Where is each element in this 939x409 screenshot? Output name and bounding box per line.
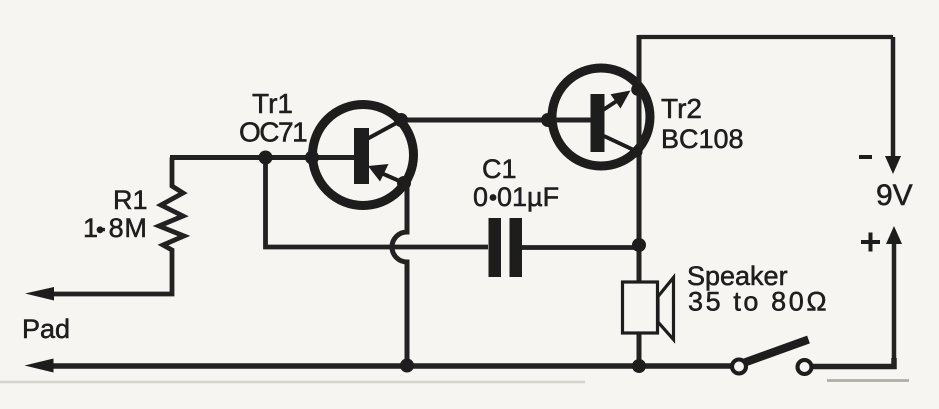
svg-text:C1: C1 bbox=[482, 154, 517, 184]
svg-text:Pad: Pad bbox=[22, 314, 70, 344]
svg-text:Tr2: Tr2 bbox=[661, 93, 702, 124]
wire bottom rail right segment bbox=[813, 358, 894, 367]
scan artifact line bottom left bbox=[0, 381, 585, 384]
battery plus sign bbox=[861, 233, 880, 252]
node Tr1 collector bbox=[394, 113, 408, 127]
wire top rail bbox=[639, 35, 893, 39]
svg-text:BC108: BC108 bbox=[661, 124, 744, 154]
svg-text:0·01µF: 0·01µF bbox=[473, 182, 559, 212]
svg-text:1·8M: 1·8M bbox=[83, 213, 148, 243]
transistor Tr1 internals (PNP) bbox=[354, 128, 369, 184]
battery positive lead bbox=[892, 243, 897, 364]
wire C1 to collector junction bbox=[522, 245, 639, 250]
svg-text:OC71: OC71 bbox=[239, 117, 307, 148]
scan artifact line bottom right bbox=[827, 379, 909, 382]
wire base rail Tr1 bbox=[170, 155, 356, 160]
svg-text:R1: R1 bbox=[113, 185, 148, 215]
wire Tr1 collector to Tr2 base bbox=[401, 118, 592, 123]
speaker LS1 bbox=[658, 278, 674, 340]
switch S1 bbox=[742, 340, 809, 364]
transistor Tr2 body circle bbox=[552, 68, 650, 166]
wire speaker bottom lead bbox=[637, 333, 642, 366]
node Tr1 emitter bbox=[397, 176, 411, 190]
node C1-speaker junction bbox=[632, 238, 646, 252]
node Tr2 base bbox=[541, 113, 555, 127]
svg-text:Tr1: Tr1 bbox=[252, 88, 293, 119]
node speaker-ground junction bbox=[632, 359, 646, 373]
wire right vertical from Tr2 up to top rail and down through Tr2 to speaker bbox=[637, 35, 642, 282]
svg-text:9V: 9V bbox=[876, 179, 913, 212]
resistor R1 bbox=[52, 158, 184, 295]
transistor Tr1 body circle bbox=[313, 105, 414, 206]
wire bottom rail left segment bbox=[50, 363, 731, 369]
battery negative lead bbox=[891, 37, 896, 158]
node base junction bbox=[259, 151, 273, 165]
battery minus sign bbox=[859, 155, 872, 159]
capacitor C1 bbox=[489, 218, 502, 277]
svg-text:35 to 80Ω: 35 to 80Ω bbox=[688, 287, 829, 317]
node Tr2 emitter top bbox=[631, 83, 644, 96]
node emitter-ground junction bbox=[400, 359, 414, 373]
node Tr1 base bbox=[305, 151, 319, 165]
wire Tr1 emitter down with hop over C1 wire bbox=[392, 184, 407, 366]
node Tr2 collector bbox=[632, 147, 643, 158]
transistor Tr2 internals (NPN) bbox=[591, 94, 605, 152]
wire from base junction down to C1 bbox=[266, 158, 489, 248]
